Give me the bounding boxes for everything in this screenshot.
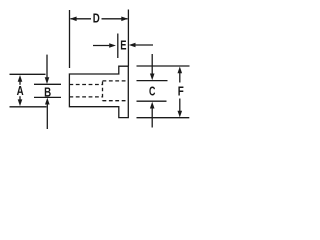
dimension A line upper segment	[19, 82, 21, 85]
arrowhead B down	[45, 77, 50, 84]
dimension F extension line bottom	[137, 117, 190, 119]
arrowhead F down	[178, 111, 183, 118]
dimension D extension line left	[69, 10, 71, 68]
dimension F line upper segment	[179, 73, 181, 83]
arrowhead E left (points right)	[109, 43, 116, 48]
counterbore hidden line top	[103, 80, 129, 82]
arrowhead A up	[18, 75, 23, 82]
dimension C leader top	[151, 54, 153, 74]
dimension B leader top	[46, 55, 48, 78]
dimension E leader right	[135, 44, 154, 46]
dimension A line lower segment	[19, 96, 21, 99]
dimension E extension line left	[117, 34, 119, 59]
svg-text:F: F	[178, 85, 184, 99]
counterbore step hidden line vertical	[102, 82, 104, 101]
dimension A extension line bottom	[10, 106, 47, 108]
arrowhead D right	[121, 17, 128, 22]
arrowhead A down	[18, 99, 23, 106]
dimension C extension line top	[137, 80, 168, 82]
svg-text:D: D	[93, 12, 100, 26]
part outline: flanged bushing side view	[69, 66, 128, 117]
svg-text:E: E	[120, 39, 127, 53]
arrowhead D left	[70, 17, 77, 22]
dimension F extension line top	[137, 65, 190, 67]
svg-text:C: C	[149, 85, 155, 99]
arrowhead C down	[150, 74, 155, 81]
counterbore hidden line bottom	[103, 100, 129, 102]
dimension E leader left	[93, 45, 109, 47]
dimension D line left segment	[71, 18, 92, 20]
bore hidden line top	[69, 84, 102, 86]
dimension C extension line bottom	[137, 100, 167, 102]
dimension C leader bottom	[151, 108, 153, 128]
dimension D extension line right	[127, 10, 129, 67]
arrowhead B up	[45, 98, 50, 105]
svg-text:B: B	[44, 86, 51, 100]
dimension B extension line bottom	[34, 96, 61, 98]
arrowhead C up	[150, 102, 155, 109]
arrowhead E right (points left)	[129, 43, 136, 48]
dimension A extension line top	[10, 73, 46, 75]
bore hidden line bottom	[69, 96, 102, 98]
svg-text:A: A	[17, 85, 24, 99]
dimension D line right segment	[102, 18, 128, 20]
dimension B leader bottom	[46, 104, 48, 129]
arrowhead F up	[178, 67, 183, 74]
dimension F line lower segment	[179, 99, 181, 112]
dimension B extension line top	[34, 83, 61, 85]
